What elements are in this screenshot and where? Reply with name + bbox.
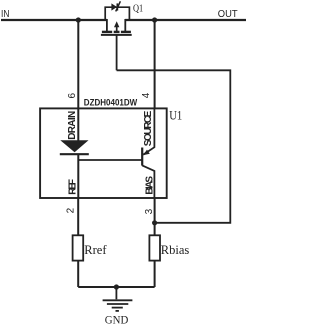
svg-text:3: 3 [144, 208, 155, 214]
svg-text:GND: GND [105, 313, 129, 327]
svg-text:U1: U1 [169, 108, 182, 122]
svg-text:DRAIN: DRAIN [67, 111, 78, 140]
svg-text:REF: REF [67, 179, 78, 195]
svg-text:2: 2 [65, 207, 76, 213]
svg-text:Rref: Rref [84, 243, 107, 257]
svg-text:Rbias: Rbias [161, 243, 190, 257]
svg-text:OUT: OUT [218, 8, 238, 20]
svg-text:DZDH0401DW: DZDH0401DW [84, 97, 137, 108]
svg-text:6: 6 [67, 93, 78, 99]
svg-text:BIAS: BIAS [144, 176, 155, 195]
svg-text:4: 4 [141, 92, 152, 98]
svg-text:SOURCE: SOURCE [143, 110, 154, 146]
svg-text:IN: IN [1, 8, 9, 20]
svg-text:Q1: Q1 [133, 2, 143, 14]
